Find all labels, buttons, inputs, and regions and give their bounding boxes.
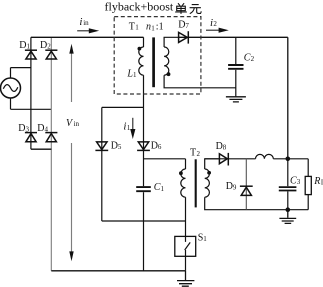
svg-text:T: T <box>190 147 196 158</box>
svg-text:3: 3 <box>26 126 30 134</box>
diode D1 <box>25 50 37 59</box>
svg-text:5: 5 <box>118 143 122 151</box>
diode D7 <box>179 31 189 43</box>
svg-text::1: :1 <box>156 21 164 32</box>
svg-text:in: in <box>83 19 89 27</box>
svg-text:2: 2 <box>47 42 51 50</box>
svg-text:D: D <box>19 40 26 51</box>
wire D8 to inductor <box>205 158 256 160</box>
svg-text:7: 7 <box>185 22 189 30</box>
wire AC top to bridge left node <box>11 67 31 69</box>
ground below output <box>279 210 296 224</box>
svg-text:in: in <box>74 120 80 128</box>
arrow i_in <box>77 28 99 33</box>
inductor Lo <box>256 154 274 158</box>
ground below C2 <box>226 97 246 102</box>
T1 core <box>152 37 155 87</box>
svg-text:4: 4 <box>45 126 49 134</box>
arrow i2 <box>206 28 229 33</box>
diode D5 <box>95 142 108 151</box>
wire D5 branch <box>101 107 103 221</box>
AC source V <box>1 68 21 110</box>
wire left bridge vertical (D1/D3 branch) <box>30 37 32 149</box>
T1 secondary dot <box>167 72 171 76</box>
svg-text:2: 2 <box>251 55 255 63</box>
svg-text:1: 1 <box>133 71 137 79</box>
svg-text:flyback+boost: flyback+boost <box>105 0 174 14</box>
svg-text:D: D <box>216 141 223 152</box>
wire inductor to R branch <box>273 158 308 160</box>
svg-text:D: D <box>18 123 25 134</box>
diode D8 <box>219 153 228 166</box>
transformer T2 primary <box>181 159 186 237</box>
T2 primary dot <box>179 171 183 175</box>
T2 secondary dot <box>207 171 211 175</box>
arrow Vin measure <box>69 44 73 261</box>
title glyph 元 <box>190 5 202 14</box>
svg-text:2: 2 <box>197 150 201 158</box>
arrow i1 <box>130 118 135 139</box>
wire top rail <box>31 36 144 38</box>
junction node bottom <box>286 207 291 212</box>
svg-text:D: D <box>151 140 158 151</box>
svg-text:D: D <box>226 181 233 192</box>
svg-text:1: 1 <box>127 124 131 132</box>
wire D6 node to T2 primary <box>144 158 186 160</box>
svg-text:1: 1 <box>203 235 207 243</box>
wire D5/D6 top bus <box>102 106 144 108</box>
svg-text:D: D <box>37 123 44 134</box>
wire bridge bottom bus <box>31 148 52 150</box>
transformer T1 primary <box>139 37 144 107</box>
capacitor C2 <box>228 37 243 96</box>
ground below S1 <box>177 271 194 286</box>
diode D3 <box>25 133 37 142</box>
svg-text:8: 8 <box>223 144 227 152</box>
svg-text:1: 1 <box>27 42 31 50</box>
T1 primary dot <box>138 47 142 51</box>
switch S1 <box>175 236 196 270</box>
svg-text:9: 9 <box>233 184 237 192</box>
svg-text:1: 1 <box>135 24 139 32</box>
svg-text:D: D <box>111 140 118 151</box>
svg-text:3: 3 <box>297 178 301 186</box>
title glyph 单 <box>175 3 187 14</box>
capacitor C3 <box>279 159 297 210</box>
diode D9 <box>240 186 253 195</box>
wire D6 branch down <box>143 107 145 186</box>
svg-text:D: D <box>178 20 185 31</box>
dashed box flyback+boost unit <box>114 17 201 94</box>
wire D9 branch <box>245 159 247 210</box>
transformer T1 secondary <box>164 37 236 88</box>
svg-text:1: 1 <box>151 25 155 33</box>
svg-text:R: R <box>313 176 320 187</box>
diode D4 <box>45 133 57 142</box>
T2 core <box>195 159 197 207</box>
wire block bottom bus to T2/S1 node <box>102 220 186 222</box>
svg-text:n: n <box>146 21 151 32</box>
transformer T2 secondary <box>205 159 309 210</box>
wire right rail down <box>287 37 289 159</box>
diode D2 <box>45 50 57 59</box>
svg-text:2: 2 <box>213 20 217 28</box>
svg-text:T: T <box>129 21 135 32</box>
svg-text:i: i <box>79 16 82 28</box>
wire right bridge vertical (D2/D4 branch, light) <box>50 37 52 270</box>
svg-text:6: 6 <box>158 143 162 151</box>
svg-text:1: 1 <box>161 185 165 193</box>
junction node top <box>286 157 291 162</box>
wire AC bottom to bridge right node <box>11 108 52 110</box>
svg-text:D: D <box>40 40 47 51</box>
resistor RL <box>305 159 311 210</box>
diode D6 <box>137 142 150 151</box>
wire bottom rail <box>51 270 185 272</box>
wire D7 to top-right corner <box>178 36 288 38</box>
capacitor C1 <box>136 187 151 271</box>
